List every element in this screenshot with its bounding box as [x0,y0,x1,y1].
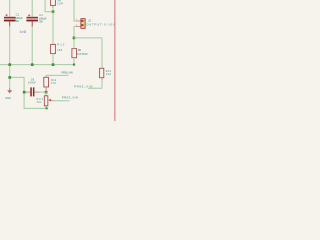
svg-text:R10: R10 [57,43,65,46]
junction C9 left [23,91,26,94]
junction bus left [8,63,11,66]
svg-text:47K: 47K [51,82,57,85]
junction R9 column [52,10,55,13]
wire pot wiper stub [53,100,70,102]
wire R9 to junction [52,8,54,12]
svg-text:10k: 10k [37,101,43,104]
junction bus C4 [31,63,34,66]
svg-text:PR06_VIN: PR06_VIN [61,71,72,75]
wire R14 bottom stub [88,80,102,88]
wire left column below C1 down to GND [9,26,11,88]
wire C4 column bottom to bus [31,27,33,65]
svg-text:10R: 10R [57,3,63,6]
svg-text:100nF: 100nF [28,81,36,85]
junction R11 bus [73,64,75,66]
wire C4 column top [31,0,33,17]
svg-text:1K5 5%W: 1K5 5%W [77,53,88,56]
potentiometer RV2 [37,94,53,108]
sheet border [114,0,116,121]
capacitor C9 [25,77,39,96]
wire R11 bottom to bus [73,58,75,65]
svg-text:PR03_VIN: PR03_VIN [62,96,78,100]
svg-text:50V: 50V [15,19,19,23]
resistor R14 [100,68,112,80]
wire connector pin1 feed [74,0,76,21]
resistor R13 [44,77,57,91]
ground [5,88,12,99]
svg-text:GND: GND [5,96,11,100]
wire stub net label elbow to R13 [46,75,68,77]
wire C9 right to junction [40,91,46,93]
svg-text:OUTPUT-0-10V: OUTPUT-0-10V [86,22,115,26]
svg-text:10K: 10K [106,73,112,76]
wire elbow feeding R9 junction [45,0,53,12]
junction R13 C9 pot [45,91,48,94]
svg-text:PR05_VIN: PR05_VIN [74,85,92,89]
svg-text:1K5: 1K5 [57,49,63,52]
svg-text:50V: 50V [39,20,43,24]
wire left column top to C1 [9,0,11,17]
wire R11 top [73,38,75,49]
connector J3 [76,18,115,28]
svg-text:4v8: 4v8 [20,30,26,34]
junction bus center [52,63,55,66]
bus wire horizontal [0,64,74,66]
wire junction down to R10 [52,12,54,45]
resistor R11 [72,49,88,58]
svg-text:C1: C1 [16,13,20,17]
wire R10 bottom to bus [52,54,54,65]
wire connector pin2 elbow down [74,26,76,38]
wire junction to pot [45,92,47,94]
junction mid right [73,37,76,40]
junction pot bottom [46,107,48,109]
resistor R10 [51,43,65,53]
wire junction to right resistor column [74,38,102,68]
capacitor C4 [26,13,47,27]
junction GND feed [8,76,11,79]
svg-text:R11: R11 [78,49,82,52]
svg-text:C4: C4 [39,13,43,17]
capacitor C1 [4,13,23,27]
resistor R9 [51,0,63,8]
wire GND feed elbow [10,77,49,108]
